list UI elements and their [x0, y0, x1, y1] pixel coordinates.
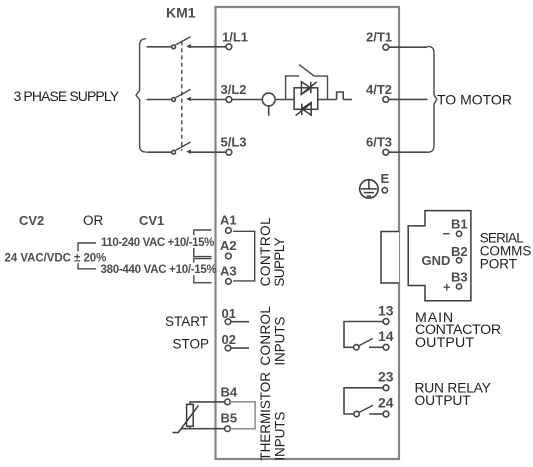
serial connector outline — [408, 211, 471, 301]
terminal 2/T1 — [366, 30, 392, 51]
svg-text:SUPPLY: SUPPLY — [272, 237, 287, 286]
terminal circle E — [382, 188, 387, 193]
rotated label THERMISTOR INPUTS — [258, 372, 288, 461]
svg-text:THERMISTOR: THERMISTOR — [258, 372, 273, 461]
terminal B3 — [451, 270, 468, 290]
wire SCR box to pulse — [318, 99, 337, 101]
CV1 bracket 110-240 — [194, 230, 212, 257]
svg-text:14: 14 — [378, 328, 394, 344]
terminal 6/T3 — [366, 135, 392, 155]
terminal 5/L3 — [221, 135, 247, 155]
svg-text:OUTPUT: OUTPUT — [415, 393, 472, 408]
wire pulse to T2 — [343, 99, 352, 101]
svg-text:STOP: STOP — [173, 337, 210, 352]
svg-text:B2: B2 — [451, 244, 468, 259]
label 380-440 VAC — [100, 263, 217, 277]
relay contact 23/24 — [344, 388, 383, 417]
svg-text:INPUTS: INPUTS — [273, 317, 288, 366]
wire B5 left — [181, 426, 191, 429]
current pulse symbol — [337, 92, 344, 100]
svg-text:−: − — [443, 226, 451, 241]
label MAIN CONTACTOR OUTPUT — [415, 310, 501, 351]
svg-text:24 VAC/VDC ± 20%: 24 VAC/VDC ± 20% — [5, 253, 107, 265]
contactor KM1 pole 2 — [172, 89, 191, 101]
svg-text:A2: A2 — [220, 238, 237, 253]
svg-text:3/L2: 3/L2 — [221, 82, 247, 97]
label RUN RELAY OUTPUT — [415, 381, 491, 409]
relay contact 13/14 — [344, 322, 383, 350]
svg-text:CV2: CV2 — [19, 213, 44, 228]
svg-text:B5: B5 — [221, 411, 238, 426]
svg-text:5/L3: 5/L3 — [221, 135, 247, 150]
link bracket B4-B5 — [230, 402, 255, 429]
svg-text:+: + — [443, 280, 451, 295]
comms module recess — [381, 232, 399, 284]
rotated label CONTROL SUPPLY — [258, 217, 287, 287]
svg-text:CV1: CV1 — [139, 213, 164, 228]
terminal 1/L1 — [222, 30, 248, 50]
terminal B2 — [451, 244, 468, 263]
svg-text:2/T1: 2/T1 — [366, 30, 392, 45]
svg-text:OUTPUT: OUTPUT — [415, 335, 474, 351]
svg-text:A3: A3 — [220, 264, 237, 279]
KM1 linkage dashed line — [181, 41, 183, 151]
wire L2 to CT — [232, 99, 262, 101]
svg-text:24: 24 — [378, 394, 394, 410]
CV1 bracket 380-440 — [194, 259, 212, 283]
svg-text:TO MOTOR: TO MOTOR — [437, 91, 512, 107]
svg-text:13: 13 — [378, 302, 394, 318]
svg-text:KM1: KM1 — [166, 5, 196, 21]
thermistor RT — [173, 404, 199, 432]
wire pole1 left — [147, 46, 172, 48]
label 110-240 VAC — [100, 235, 215, 249]
soft starter enclosure block — [216, 7, 400, 459]
wire 4/T2 to motor — [389, 98, 428, 100]
svg-text:02: 02 — [222, 332, 236, 347]
terminal B5 — [221, 411, 238, 432]
svg-text:CONTROL: CONTROL — [258, 217, 273, 287]
svg-text:23: 23 — [378, 369, 394, 385]
wire 02 — [231, 347, 249, 349]
contactor KM1 pole 1 — [172, 37, 191, 49]
svg-text:INPUTS: INPUTS — [273, 412, 288, 461]
svg-text:B1: B1 — [451, 216, 468, 231]
CV2 bracket — [78, 243, 96, 269]
svg-text:B3: B3 — [451, 270, 468, 285]
terminal 4/T2 — [366, 82, 392, 102]
wire pole1 right — [189, 46, 226, 48]
label 24 VAC/VDC — [4, 252, 97, 264]
svg-text:E: E — [381, 171, 390, 186]
svg-text:A1: A1 — [220, 213, 237, 228]
bracket A1-A3 — [233, 231, 255, 281]
wire pole2 left — [147, 99, 172, 101]
terminal 3/L2 — [221, 82, 247, 102]
motor brace — [428, 46, 437, 152]
svg-text:PORT: PORT — [480, 256, 517, 271]
terminal A1 — [220, 213, 237, 234]
svg-text:4/T2: 4/T2 — [366, 82, 392, 97]
svg-text:380-440 VAC +10/-15%: 380-440 VAC +10/-15% — [101, 264, 217, 276]
terminal 02 — [222, 332, 236, 351]
terminal 13 — [378, 302, 394, 324]
svg-text:CONROL: CONROL — [258, 306, 273, 366]
terminal B1 — [451, 216, 468, 236]
label SERIAL COMMS PORT — [480, 230, 532, 271]
terminal B4 — [221, 385, 238, 405]
thyristor lower — [296, 103, 312, 116]
terminal A3 — [220, 264, 237, 285]
terminal 14 — [378, 328, 394, 350]
svg-text:1/L1: 1/L1 — [222, 30, 248, 45]
wire B4 left — [190, 402, 225, 405]
wire 2/T1 to motor — [389, 46, 428, 48]
svg-text:OR: OR — [83, 213, 104, 228]
wire 6/T3 to motor — [389, 151, 428, 153]
svg-text:110-240 VAC +10/-15%: 110-240 VAC +10/-15% — [101, 237, 214, 249]
wire pole3 left — [147, 151, 172, 153]
terminal E earth — [360, 180, 378, 198]
svg-text:6/T3: 6/T3 — [366, 135, 392, 150]
thyristor upper — [301, 82, 317, 95]
wire 01 — [231, 321, 249, 323]
terminal 01 — [222, 306, 236, 325]
wire pole2 right — [189, 99, 226, 101]
SCR pair box — [294, 88, 318, 110]
bypass contact — [286, 65, 328, 100]
svg-text:START: START — [165, 314, 208, 329]
current transformer — [262, 93, 275, 116]
contactor KM1 pole 3 — [172, 142, 191, 154]
wire CT to SCR box — [275, 99, 294, 101]
rotated label CONROL INPUTS — [258, 306, 288, 366]
terminal 23 — [378, 369, 394, 391]
svg-text:3 PHASE SUPPLY: 3 PHASE SUPPLY — [14, 88, 120, 104]
supply brace — [136, 39, 146, 152]
svg-text:B4: B4 — [221, 385, 238, 400]
wire pole3 right — [189, 151, 226, 153]
svg-text:GND: GND — [422, 253, 451, 268]
terminal A2 — [220, 238, 237, 259]
terminal 24 — [378, 394, 394, 417]
